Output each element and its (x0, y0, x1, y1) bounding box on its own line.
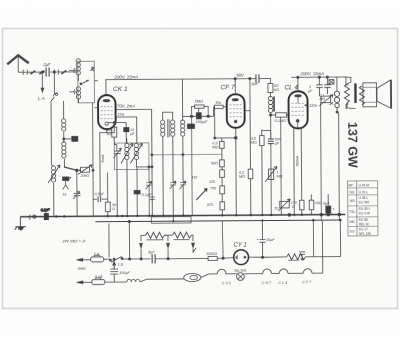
wire cathode down (235, 128, 238, 215)
pot 1M (268, 169, 273, 180)
second bus (95, 220, 340, 222)
tube CL4 envelope (288, 91, 307, 128)
arrow variable (121, 143, 133, 163)
tube CY1 (234, 250, 249, 265)
arrows down (140, 243, 143, 248)
core (168, 119, 170, 137)
wire anode (234, 79, 236, 95)
svg-text:69W: 69W (78, 267, 86, 271)
svg-text:137 GW: 137 GW (345, 122, 359, 168)
junction dots on bus (55, 213, 342, 223)
band switch arm (64, 167, 81, 171)
svg-text:WS: WS (350, 199, 355, 203)
mains plug prong 1 (77, 258, 83, 261)
capacitor 2uF plates (46, 68, 49, 77)
antenna (7, 55, 29, 64)
svg-text:MF: MF (349, 183, 354, 187)
coil box frame (78, 61, 95, 103)
switch arrow small (113, 261, 116, 268)
avc cap (191, 116, 194, 215)
fuse 2 (92, 279, 105, 284)
cap 500pF (268, 130, 274, 145)
svg-text:110v: 110v (309, 103, 318, 108)
heater line choke (107, 281, 127, 283)
resistor 0.3M (215, 108, 236, 141)
avc line (152, 153, 222, 155)
wire cathode (293, 128, 296, 214)
svg-text:kΩ: kΩ (107, 132, 112, 136)
svg-text:U 20 L: U 20 L (359, 190, 369, 194)
rail continues (260, 79, 271, 84)
svg-text:MΩ: MΩ (277, 174, 283, 178)
wire rail to transformer (335, 77, 348, 109)
band switch (80, 80, 89, 84)
grid stopper (215, 105, 224, 108)
svg-text:129: 129 (209, 180, 215, 184)
svg-text:MΩ: MΩ (251, 141, 257, 145)
choke coil (269, 93, 271, 98)
svg-text:110: 110 (192, 176, 198, 180)
wire x=117 trimmer (114, 145, 121, 217)
svg-text:C H 7: C H 7 (262, 281, 272, 285)
wire right pin (245, 111, 251, 216)
wire x=51.5 (51, 101, 54, 217)
tuning coil (51, 166, 55, 182)
main bus (20, 214, 345, 216)
heater CH7 (263, 269, 272, 274)
dial lamp (237, 273, 245, 281)
grid cap comp (90, 67, 94, 72)
svg-text:50µ 50A: 50µ 50A (234, 269, 246, 273)
svg-text:U A5 M: U A5 M (359, 183, 370, 187)
svg-text:EU 5E: EU 5E (359, 218, 368, 222)
resistor 50k (268, 83, 273, 92)
wire tap to cap (64, 138, 72, 140)
svg-text:EU 4 W: EU 4 W (359, 211, 370, 215)
svg-text:2MΩ: 2MΩ (194, 98, 204, 103)
cap 8uF (327, 194, 329, 206)
junction node (222, 257, 224, 259)
cap black (63, 177, 69, 181)
transformer core (354, 83, 357, 102)
wire x=322 heater return (312, 221, 322, 273)
mains switch (105, 257, 129, 263)
speaker cone (377, 80, 391, 108)
heater CF7 (303, 269, 312, 274)
trimmer arrow (113, 148, 121, 158)
svg-text:10a: 10a (118, 112, 125, 117)
fork symbol (63, 177, 72, 189)
osc coil A (125, 143, 129, 159)
svg-text:15Ω: 15Ω (315, 201, 322, 205)
svg-text:0,1MΩ: 0,1MΩ (275, 119, 286, 123)
connector (74, 68, 75, 95)
svg-text:C L 4: C L 4 (278, 281, 287, 285)
rail 200V right (291, 76, 335, 78)
svg-text:EU 300: EU 300 (359, 200, 370, 204)
svg-text:Ω: Ω (112, 207, 115, 211)
resistor 0.1M (276, 113, 287, 117)
svg-text:CL 4: CL 4 (284, 84, 298, 91)
svg-text:0,1µF: 0,1µF (142, 193, 152, 197)
wire x=64 column (64, 101, 66, 182)
verticals below (261, 130, 264, 215)
heater chain (209, 273, 217, 275)
cathode resistor 55k (112, 121, 129, 144)
cap out 2 (324, 77, 331, 94)
wire cathode drop (100, 123, 127, 197)
svg-text:0,5µF: 0,5µF (95, 192, 105, 196)
wire x=93 (92, 103, 95, 216)
pot 170 (280, 201, 290, 208)
svg-text:MΩ: MΩ (212, 145, 218, 149)
tube CL4 electrodes (292, 103, 305, 115)
svg-text:100µµF: 100µµF (196, 120, 209, 124)
svg-text:L A: L A (38, 96, 45, 101)
wire to resistor 0.1M (271, 114, 276, 116)
wire antenna input line (18, 71, 76, 73)
cap 10uF (259, 221, 265, 253)
resistor 3.5M (260, 136, 265, 146)
wire feed (181, 79, 183, 121)
junction (41, 71, 43, 73)
fuse arrow (30, 71, 35, 75)
svg-text:TSL: TSL (349, 210, 355, 214)
pot arrow (196, 188, 207, 200)
heater CL4 (279, 269, 288, 274)
ground drop (19, 217, 21, 226)
core bar (273, 96, 275, 111)
svg-text:50a: 50a (216, 101, 222, 105)
wires osc (126, 138, 152, 216)
IF coil 1 (161, 120, 165, 136)
svg-text:200V, 15mA: 200V, 15mA (299, 71, 324, 76)
svg-text:kΩ: kΩ (274, 88, 279, 92)
fuse 2A (91, 257, 104, 262)
capacitor 1nF (72, 136, 78, 141)
svg-text:1000Ω: 1000Ω (206, 252, 217, 256)
svg-text:NFL 150: NFL 150 (359, 232, 371, 236)
connector plug pair (23, 70, 28, 75)
resistor 15 (309, 200, 314, 210)
svg-text:NG: NG (350, 190, 355, 194)
svg-text:REL M: REL M (359, 222, 369, 226)
svg-text:0,1A: 0,1A (95, 275, 103, 279)
svg-text:MΩ: MΩ (239, 175, 245, 179)
rail to 8uF (182, 78, 255, 81)
arrow through coil (48, 165, 60, 183)
svg-text:1 Δ: 1 Δ (118, 263, 124, 267)
dropper resistor 2 (172, 232, 191, 238)
svg-text:2µF: 2µF (42, 62, 51, 67)
wire anode to rail (297, 77, 299, 91)
tube CK1 electrodes (101, 107, 113, 119)
wire coil feeds (69, 70, 78, 103)
pot 0.1M (321, 96, 331, 103)
svg-text:750: 750 (210, 186, 216, 190)
wire bus to line (128, 221, 130, 258)
svg-text:U 38 L: U 38 L (359, 196, 369, 200)
coil (62, 119, 66, 131)
wire down to bus (337, 108, 339, 221)
dropper resistor 1 (145, 232, 164, 238)
coil (62, 142, 66, 158)
svg-text:0,1µF: 0,1µF (41, 208, 51, 212)
svg-text:670: 670 (207, 203, 213, 207)
wire x=107.5 (107, 173, 109, 216)
wire antenna down-lead (17, 56, 19, 72)
fuse arrow (39, 71, 44, 75)
trimmer cap osc (145, 167, 152, 216)
wire drop to rectifier line (221, 221, 224, 258)
svg-text:200V, 15mA: 200V, 15mA (113, 74, 138, 79)
svg-text:8µF: 8µF (251, 82, 258, 86)
tube CK1 envelope (98, 95, 116, 129)
svg-text:20: 20 (274, 206, 278, 210)
svg-text:2W·15t2 = 2r: 2W·15t2 = 2r (61, 238, 86, 243)
fuse arrow (61, 70, 66, 74)
IF coil 2 (171, 120, 175, 136)
osc coil box (114, 143, 149, 170)
IF coil 3 (181, 120, 185, 136)
trimmer cap IF 2 (180, 181, 187, 189)
speaker box (363, 83, 377, 107)
output transformer primary (344, 84, 349, 103)
resistor 0.2M (248, 169, 253, 179)
connector (53, 93, 58, 97)
wire anode to rail (106, 79, 183, 95)
svg-text:5µF: 5µF (148, 250, 155, 254)
cap 100uF (110, 263, 118, 283)
pot 20k (80, 167, 89, 172)
wire drop to plug (53, 72, 55, 94)
svg-text:C V 1: C V 1 (222, 281, 231, 285)
resistor underline (288, 259, 299, 261)
wire to tube grid (94, 81, 98, 108)
cap 0.1uF (136, 167, 138, 216)
resistor box (105, 202, 110, 212)
svg-text:CK 1: CK 1 (113, 86, 128, 93)
wire drop x=281 (280, 117, 283, 215)
bus connector (28, 215, 31, 220)
wire bus to switch (108, 224, 110, 258)
NTC resistor (336, 77, 338, 91)
svg-text:MΩ: MΩ (319, 97, 325, 101)
resistor 1000 (208, 256, 217, 260)
svg-text:90V: 90V (236, 73, 245, 78)
svg-text:2 A: 2 A (93, 252, 100, 256)
tube CF7 electrodes (230, 105, 242, 117)
table frame (348, 181, 378, 236)
svg-text:CF 7: CF 7 (220, 84, 235, 91)
osc coil B (134, 143, 138, 159)
capacitor on screen line (150, 197, 155, 200)
cap 0.5uF (98, 196, 101, 201)
svg-text:ABl: ABl (349, 220, 354, 224)
wire screen (300, 128, 303, 200)
grid RC: resistor 2M (183, 105, 228, 216)
trimmer cap IF 1 (170, 181, 177, 189)
wire join (114, 144, 116, 146)
voice coil (359, 86, 364, 105)
mains plug prong 2 (77, 281, 83, 284)
heater CV1 (217, 269, 226, 274)
svg-text:2x2: 2x2 (349, 229, 354, 233)
wire screen 70V (116, 109, 153, 216)
wire on (140, 258, 142, 260)
resistor column x=222 (221, 148, 223, 159)
capacitor 10uF (124, 127, 129, 131)
wire LA drop (41, 72, 43, 88)
resistor zig (287, 254, 306, 260)
antenna coil upper (76, 59, 80, 75)
svg-text:5mA: 5mA (100, 154, 105, 163)
cap 100pF (196, 113, 201, 119)
wire CY1 right (248, 252, 286, 257)
resistor (300, 200, 305, 210)
wire rail corner (346, 77, 356, 109)
svg-text:100µF: 100µF (119, 271, 131, 275)
tube CF7 envelope (227, 94, 245, 128)
svg-text:EU 17: EU 17 (359, 227, 368, 231)
wire 10a tap (116, 117, 137, 144)
cap out 1 (316, 77, 323, 96)
small comp (329, 80, 334, 85)
svg-text:8µF: 8µF (323, 202, 330, 206)
arrow LA (41, 88, 44, 92)
svg-text:1a: 1a (62, 192, 66, 196)
trimmer cap (74, 172, 81, 217)
svg-text:70V, 2mA: 70V, 2mA (117, 103, 135, 108)
antenna coil lower (76, 87, 80, 99)
arrow variable (130, 143, 142, 163)
svg-text:EU 35 L: EU 35 L (359, 207, 371, 211)
svg-text:20kΩ: 20kΩ (80, 174, 90, 178)
ground symbol (15, 227, 26, 230)
svg-text:5kΩ: 5kΩ (211, 161, 218, 165)
bus component (44, 214, 48, 220)
svg-text:CY 1: CY 1 (234, 243, 247, 249)
box frame (151, 217, 191, 224)
svg-text:10µF: 10µF (266, 238, 275, 242)
connector plug pair (54, 69, 59, 74)
cap 5uF (152, 254, 155, 263)
svg-text:50mA: 50mA (294, 156, 299, 167)
svg-text:µF: µF (275, 141, 280, 145)
cap 8uF (256, 74, 259, 82)
pilot lamp (184, 273, 201, 281)
wires (163, 112, 184, 221)
wire 8uF to bus (249, 79, 251, 111)
wire to cap 5uF (129, 258, 151, 260)
wires droppers (141, 235, 193, 241)
svg-text:C F 7: C F 7 (302, 280, 312, 284)
cap on line (299, 252, 305, 260)
svg-text:Ω: Ω (292, 205, 295, 209)
